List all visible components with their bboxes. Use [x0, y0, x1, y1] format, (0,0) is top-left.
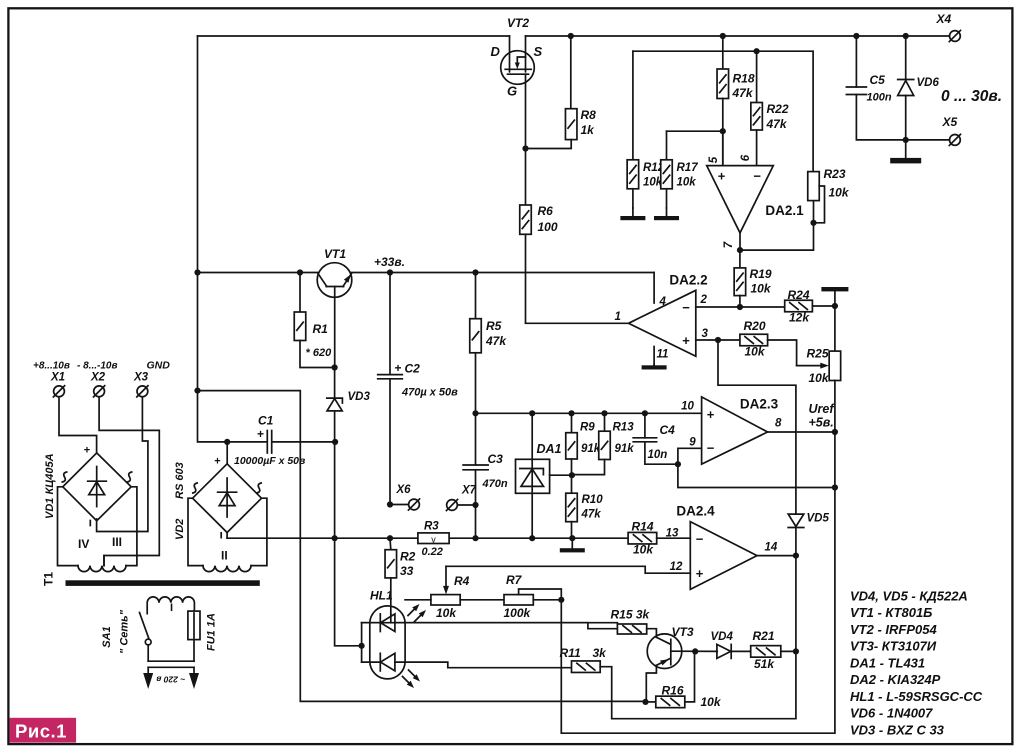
svg-text:R24: R24 — [788, 288, 810, 302]
zener diode VD3 — [334, 368, 336, 399]
capacitor C1 10000uF — [227, 441, 267, 443]
transistor VT2 (IRFP054 MOSFET) — [501, 36, 535, 149]
svg-text:DA1: DA1 — [537, 442, 562, 456]
svg-text:10k: 10k — [829, 186, 850, 200]
svg-text:10n: 10n — [648, 449, 668, 461]
svg-text:+: + — [214, 456, 220, 468]
node junction DA1 top — [529, 410, 535, 416]
svg-text:I: I — [170, 602, 173, 614]
pin 12 wire — [446, 566, 690, 573]
svg-text:9: 9 — [689, 437, 696, 449]
svg-text:47k: 47k — [732, 86, 754, 100]
svg-text:R20: R20 — [744, 319, 766, 333]
resistor R24 12k — [785, 300, 813, 312]
node junction C1 left — [224, 439, 230, 445]
svg-text:−: − — [682, 300, 690, 315]
svg-text:R17: R17 — [677, 162, 699, 174]
svg-text:X1: X1 — [50, 372, 65, 384]
svg-text:C4: C4 — [660, 423, 676, 437]
winding II of T1 — [188, 498, 203, 565]
resistor R10 47k — [571, 475, 573, 493]
terminal X7 — [447, 500, 458, 511]
shunt reference DA1 TL431 — [531, 413, 533, 459]
svg-text:G: G — [507, 84, 517, 99]
node junction rail VD3 — [332, 535, 338, 541]
svg-text:VT2: VT2 — [507, 16, 529, 30]
bridge rectifier VD2 RS603 — [226, 442, 228, 464]
LED optopair HL1 — [370, 606, 405, 679]
resistor R1 620 — [299, 273, 301, 313]
resistor R19 10k — [739, 250, 741, 268]
wire DA2.1 output pin 7 — [739, 233, 741, 250]
svg-text:13: 13 — [666, 528, 679, 540]
resistor R11 3k — [572, 661, 601, 673]
wire Uref net bottom loop — [561, 488, 835, 734]
node junction R7 right — [558, 597, 564, 603]
svg-text:12: 12 — [670, 561, 683, 573]
svg-text:FU1 1A: FU1 1A — [206, 613, 218, 651]
svg-text:R4: R4 — [454, 574, 470, 588]
svg-text:+33в.: +33в. — [374, 255, 405, 269]
svg-text:" Сеть": " Сеть" — [119, 609, 131, 654]
wire top rail right (VT2 source to X4) — [526, 35, 950, 37]
svg-text:X4: X4 — [936, 12, 952, 26]
node junction VT1 collector rail — [194, 269, 200, 275]
svg-text:0.22: 0.22 — [422, 546, 443, 558]
svg-text:10000µF x 50в: 10000µF x 50в — [234, 455, 306, 467]
diode VD4 — [717, 644, 731, 658]
resistor R13 91k — [604, 413, 606, 431]
svg-text:SA1: SA1 — [101, 626, 113, 647]
svg-text:VD4: VD4 — [711, 631, 734, 643]
svg-text:R5: R5 — [486, 319, 502, 333]
node junction R22 top — [754, 48, 760, 54]
svg-text:* 620: * 620 — [306, 347, 333, 359]
svg-text:VD3: VD3 — [348, 391, 371, 403]
node junction R5 top — [472, 269, 478, 275]
wire winding III left tap — [103, 556, 105, 566]
svg-text:R11: R11 — [560, 646, 581, 660]
wire pin9 feedback to Uref net — [678, 464, 835, 487]
terminal X5 — [950, 135, 961, 146]
svg-text:−: − — [707, 441, 715, 456]
node junction R5 to divider wire — [472, 410, 478, 416]
wire HL1 common left — [361, 623, 363, 662]
svg-text:VD5: VD5 — [807, 513, 830, 525]
node junction R24 right — [832, 303, 838, 309]
node junction pin3 — [715, 337, 721, 343]
svg-text:4: 4 — [659, 296, 667, 308]
svg-text:VT3: VT3 — [672, 625, 694, 639]
svg-text:R21: R21 — [753, 629, 775, 643]
parts list text — [850, 589, 983, 738]
svg-text:R10: R10 — [582, 494, 604, 506]
svg-text:R1: R1 — [313, 322, 329, 336]
switch SA1 — [140, 613, 150, 640]
node junction R9 top — [568, 410, 574, 416]
svg-text:11: 11 — [657, 349, 669, 361]
svg-text:+: + — [696, 566, 704, 581]
terminal X2 — [94, 386, 105, 397]
svg-text:Рис.1: Рис.1 — [15, 721, 67, 742]
transistor VT1 (KT801) — [317, 263, 352, 368]
svg-text:VD6 - 1N4007: VD6 - 1N4007 — [850, 706, 933, 721]
svg-text:R13: R13 — [613, 422, 635, 434]
svg-text:X2: X2 — [90, 372, 106, 384]
svg-text:7: 7 — [723, 241, 735, 248]
svg-text:R16: R16 — [662, 684, 684, 698]
trimmer R25 10k — [834, 306, 836, 351]
svg-text:6: 6 — [740, 154, 752, 161]
svg-text:R3: R3 — [424, 521, 439, 533]
svg-text:HL1 - L-59SRSGC-CC: HL1 - L-59SRSGC-CC — [850, 689, 983, 704]
fuse FU1 1A — [193, 611, 195, 661]
svg-text:1k: 1k — [581, 123, 596, 137]
LED 2 of HL1 — [362, 661, 381, 663]
svg-text:100k: 100k — [504, 606, 532, 620]
node junction emitter R16 — [642, 699, 648, 705]
diode VD5 — [788, 514, 804, 526]
svg-text:C3: C3 — [488, 452, 504, 466]
pin 4 wire power — [653, 273, 655, 304]
node junction C4 pin9 — [675, 461, 681, 467]
wire DA2.3 output pin 8 — [768, 431, 835, 433]
svg-text:+: + — [395, 361, 402, 375]
node junction VT1 base / VD3 top — [332, 364, 338, 370]
node junction rail DA1 — [529, 535, 535, 541]
wire R11 right loop to node 14 — [600, 651, 796, 718]
node junction left rail to C1 — [194, 388, 200, 394]
svg-text:VD2: VD2 — [174, 519, 186, 540]
svg-text:10: 10 — [681, 401, 694, 413]
svg-text:R8: R8 — [581, 108, 597, 122]
op-amp DA2.3 — [702, 397, 768, 464]
svg-text:R2: R2 — [400, 550, 416, 564]
svg-text:10k: 10k — [436, 606, 457, 620]
transformer T1 core — [66, 580, 260, 586]
terminal X6 — [390, 504, 409, 506]
svg-text:IV: IV — [78, 537, 89, 551]
svg-text:III: III — [112, 535, 122, 549]
svg-text:2: 2 — [700, 294, 708, 306]
svg-text:10k: 10k — [745, 345, 766, 359]
svg-text:VT3- КТ3107И: VT3- КТ3107И — [850, 639, 937, 654]
svg-text:RS 603: RS 603 — [174, 462, 186, 499]
svg-text:+: + — [682, 333, 690, 348]
svg-text:8: 8 — [775, 418, 782, 430]
svg-text:10k: 10k — [643, 177, 663, 189]
svg-text:10k: 10k — [677, 177, 697, 189]
svg-text:VT2 - IRFP054: VT2 - IRFP054 — [850, 622, 937, 637]
light arrows of HL1 bottom — [409, 670, 418, 679]
svg-text:+: + — [84, 445, 90, 457]
ground below R12 — [632, 208, 634, 216]
node junction VD6 bottom — [903, 137, 909, 143]
svg-text:470n: 470n — [482, 478, 508, 490]
svg-text:47k: 47k — [581, 509, 602, 521]
node junction X7 — [472, 502, 478, 508]
resistor R6 100 — [525, 149, 527, 206]
node junction C3 rail — [472, 535, 478, 541]
svg-text:VT1: VT1 — [324, 247, 346, 261]
svg-text:DA2.3: DA2.3 — [740, 397, 779, 412]
wire X3 to VD1 minus — [97, 397, 148, 532]
node junction pin9 feedback — [832, 484, 838, 490]
winding IV/III of T1 — [58, 487, 79, 566]
capacitor C2 470u — [389, 273, 391, 375]
op-amp DA2.1 — [707, 166, 774, 233]
node junction output 14 — [793, 553, 799, 559]
svg-text:HL1: HL1 — [370, 589, 393, 603]
resistor R5 47k — [475, 273, 477, 319]
svg-text:- 8...-10в: - 8...-10в — [77, 361, 118, 372]
svg-text:X6: X6 — [396, 484, 412, 496]
svg-text:VD3 - BXZ C 33: VD3 - BXZ C 33 — [850, 722, 945, 737]
resistor R16 10k — [646, 701, 656, 703]
svg-text:v: v — [431, 534, 436, 544]
potentiometer R4 10k — [431, 595, 460, 605]
resistor R14 10k — [628, 532, 657, 544]
ground flipped above R24 node — [821, 287, 848, 291]
terminal X4 — [950, 31, 961, 42]
op-amp DA2.2 — [629, 290, 696, 356]
svg-text:C2: C2 — [405, 362, 421, 376]
svg-text:C5: C5 — [870, 73, 886, 87]
svg-text:47k: 47k — [485, 334, 507, 348]
svg-text:R14: R14 — [632, 520, 654, 534]
svg-text:51k: 51k — [754, 657, 775, 671]
node junction R21 right — [793, 648, 799, 654]
svg-text:+: + — [257, 427, 264, 441]
node junction rail C2 line — [387, 535, 393, 541]
wire +33v rail (VT1 emitter) — [352, 272, 655, 274]
svg-text:33: 33 — [400, 564, 414, 578]
node junction C5 top — [853, 33, 859, 39]
node junction DA1 ref — [569, 472, 575, 478]
wire feedback net R12-R22-R23 — [633, 51, 813, 171]
wire bottom common rail — [227, 537, 418, 539]
node junction HL1 tap — [359, 643, 365, 649]
pin 2 wire inverting — [696, 306, 785, 308]
resistor R2 33 — [389, 538, 392, 550]
svg-text:91k: 91k — [581, 443, 601, 455]
svg-text:R15 3k: R15 3k — [611, 608, 651, 622]
wire top rail left (raw + to VT2 drain) — [198, 35, 510, 37]
svg-text:DA2.2: DA2.2 — [669, 273, 707, 288]
svg-text:DA1 - TL431: DA1 - TL431 — [850, 655, 925, 670]
svg-text:VD6: VD6 — [917, 77, 940, 89]
svg-text:DA2.4: DA2.4 — [676, 504, 715, 519]
wire R2 into HL1 — [390, 614, 392, 623]
svg-text:10k: 10k — [751, 282, 772, 296]
svg-text:~ 220 в: ~ 220 в — [156, 675, 185, 685]
wire Uref vertical net — [834, 432, 836, 488]
svg-text:100: 100 — [538, 220, 558, 234]
LED1 wire left segment — [362, 622, 381, 624]
figure label box — [10, 718, 77, 743]
diode VD6 1N4007 — [905, 36, 907, 79]
transistor VT3 (KT3107 PNP) — [647, 634, 717, 669]
resistor R9 91k — [571, 413, 573, 432]
svg-text:470µ x 50в: 470µ x 50в — [401, 387, 458, 399]
node junction output 8 — [832, 429, 838, 435]
svg-text:X3: X3 — [133, 372, 149, 384]
terminal X3 — [137, 386, 148, 397]
LED 1 of HL1 — [362, 622, 618, 624]
wire raw positive left rail — [198, 36, 228, 442]
node junction VD6 top — [903, 33, 909, 39]
svg-text:R25: R25 — [807, 347, 829, 361]
svg-text:+5в.: +5в. — [809, 416, 834, 430]
svg-text:D: D — [491, 44, 501, 59]
svg-text:10k: 10k — [809, 371, 830, 385]
svg-text:Т1: Т1 — [42, 572, 56, 586]
svg-text:X5: X5 — [942, 115, 958, 129]
node junction R13 top — [601, 410, 607, 416]
svg-text:R19: R19 — [750, 267, 772, 281]
LED2 wire right to R11 — [395, 662, 572, 668]
svg-text:+8...10в: +8...10в — [33, 361, 70, 372]
node junction VT3 base — [692, 648, 698, 654]
resistor R12 10k — [632, 51, 634, 160]
ground below R17 — [666, 208, 668, 216]
wire DA2.2 output pin 1 — [526, 322, 629, 324]
svg-text:10k: 10k — [701, 695, 722, 709]
svg-text:+: + — [718, 169, 726, 184]
node junction R18 top — [720, 33, 726, 39]
ground at X5 rail — [905, 140, 907, 158]
svg-text:10k: 10k — [633, 543, 654, 557]
capacitor C5 100n — [855, 36, 857, 87]
svg-text:R9: R9 — [580, 422, 595, 434]
svg-text:S: S — [534, 44, 543, 59]
resistor R21 51k — [751, 646, 781, 658]
wire X1 to VD1 plus — [59, 397, 97, 453]
node junction C4 top — [642, 410, 648, 416]
arrow mains left — [147, 667, 149, 673]
pin 9 wire — [678, 448, 702, 464]
node junction rail ground — [569, 535, 575, 541]
svg-text:GND: GND — [147, 360, 171, 372]
capacitor C4 10n — [644, 413, 646, 438]
wire DA2.4 output pin 14 — [757, 555, 796, 557]
node junction pin5-R18 — [720, 128, 726, 134]
svg-text:12k: 12k — [789, 311, 810, 325]
pin 3 wire non-inverting — [696, 339, 740, 341]
svg-text:VT1 - КТ801Б: VT1 - КТ801Б — [850, 605, 932, 620]
svg-text:14: 14 — [765, 542, 778, 554]
op-amp DA2.4 — [690, 522, 757, 590]
ground below DA2.2 — [653, 364, 655, 365]
node junction R19 pin2 — [737, 304, 743, 310]
resistor R8 1k — [570, 36, 572, 109]
svg-text:R23: R23 — [824, 167, 846, 181]
wire VT1 collector — [198, 272, 319, 274]
svg-text:3: 3 — [702, 328, 709, 340]
svg-text:+: + — [707, 407, 715, 422]
wire raw rail to lower loop — [198, 391, 646, 702]
resistor R17 10k — [666, 131, 668, 160]
svg-text:DA2.1: DA2.1 — [765, 203, 804, 218]
wire divider rail to pin 10 — [476, 412, 702, 414]
svg-text:5: 5 — [708, 156, 720, 163]
winding I primary of T1 — [147, 597, 194, 614]
svg-text:R7: R7 — [506, 573, 523, 587]
svg-text:−: − — [753, 169, 761, 184]
node junction X6 — [387, 501, 393, 507]
svg-text:R18: R18 — [733, 72, 755, 86]
light arrows of HL1 top — [408, 607, 417, 616]
svg-text:1: 1 — [615, 311, 621, 323]
wire R17 to op-amp pin 5 — [667, 130, 723, 132]
shunt resistor R3 0.22 — [418, 533, 449, 544]
svg-text:II: II — [221, 549, 228, 563]
wire mains double line — [148, 660, 194, 662]
svg-text:VD1 КЦ405А: VD1 КЦ405А — [44, 453, 56, 519]
svg-text:47k: 47k — [766, 117, 788, 131]
node junction R8 top — [568, 33, 574, 39]
wiper arrow into R25 — [797, 365, 823, 367]
wire VT3 emitter — [646, 665, 656, 702]
svg-text:−: − — [696, 532, 704, 547]
terminal X1 — [54, 386, 65, 397]
svg-text:R22: R22 — [767, 102, 789, 116]
svg-text:3k: 3k — [593, 646, 608, 660]
node junction C2 top — [387, 269, 393, 275]
resistor R20 10k — [740, 334, 768, 346]
resistor R18 47k — [722, 36, 724, 69]
svg-text:100n: 100n — [867, 92, 892, 104]
svg-text:C1: C1 — [258, 414, 274, 428]
bridge rectifier VD1 KC405A — [63, 453, 131, 521]
arrow mains right — [193, 667, 195, 673]
capacitor C3 470n — [463, 464, 488, 466]
svg-text:Uref: Uref — [809, 402, 836, 416]
resistor R22 47k — [756, 51, 758, 102]
svg-text:0 ... 30в.: 0 ... 30в. — [941, 88, 1002, 105]
trimmer R23 10k — [808, 172, 820, 201]
LED1 wire right to R15 — [395, 623, 618, 629]
node junction VD3 to C1 wire — [332, 439, 338, 445]
wire output 14 down to R21 node — [795, 556, 797, 652]
svg-text:R6: R6 — [538, 204, 554, 218]
svg-text:VD4, VD5 - КД522А: VD4, VD5 - КД522А — [850, 589, 968, 604]
svg-text:DA2 - KIA324P: DA2 - KIA324P — [850, 672, 941, 687]
potentiometer R7 100k — [504, 595, 533, 605]
node junction R1 top — [297, 269, 303, 275]
ground at bottom rail — [571, 538, 573, 548]
wire X2 to winding III tap — [99, 397, 159, 566]
resistor R15 3k — [617, 624, 646, 634]
wire pin3 to VD5 branch — [718, 340, 796, 514]
node VT2 gate junction — [522, 145, 528, 151]
svg-text:X7: X7 — [461, 485, 477, 497]
svg-text:91k: 91k — [615, 443, 635, 455]
pin 11 wire ground — [653, 347, 655, 365]
wire VD3 line to bottom rail and HL1 tap — [335, 442, 362, 646]
